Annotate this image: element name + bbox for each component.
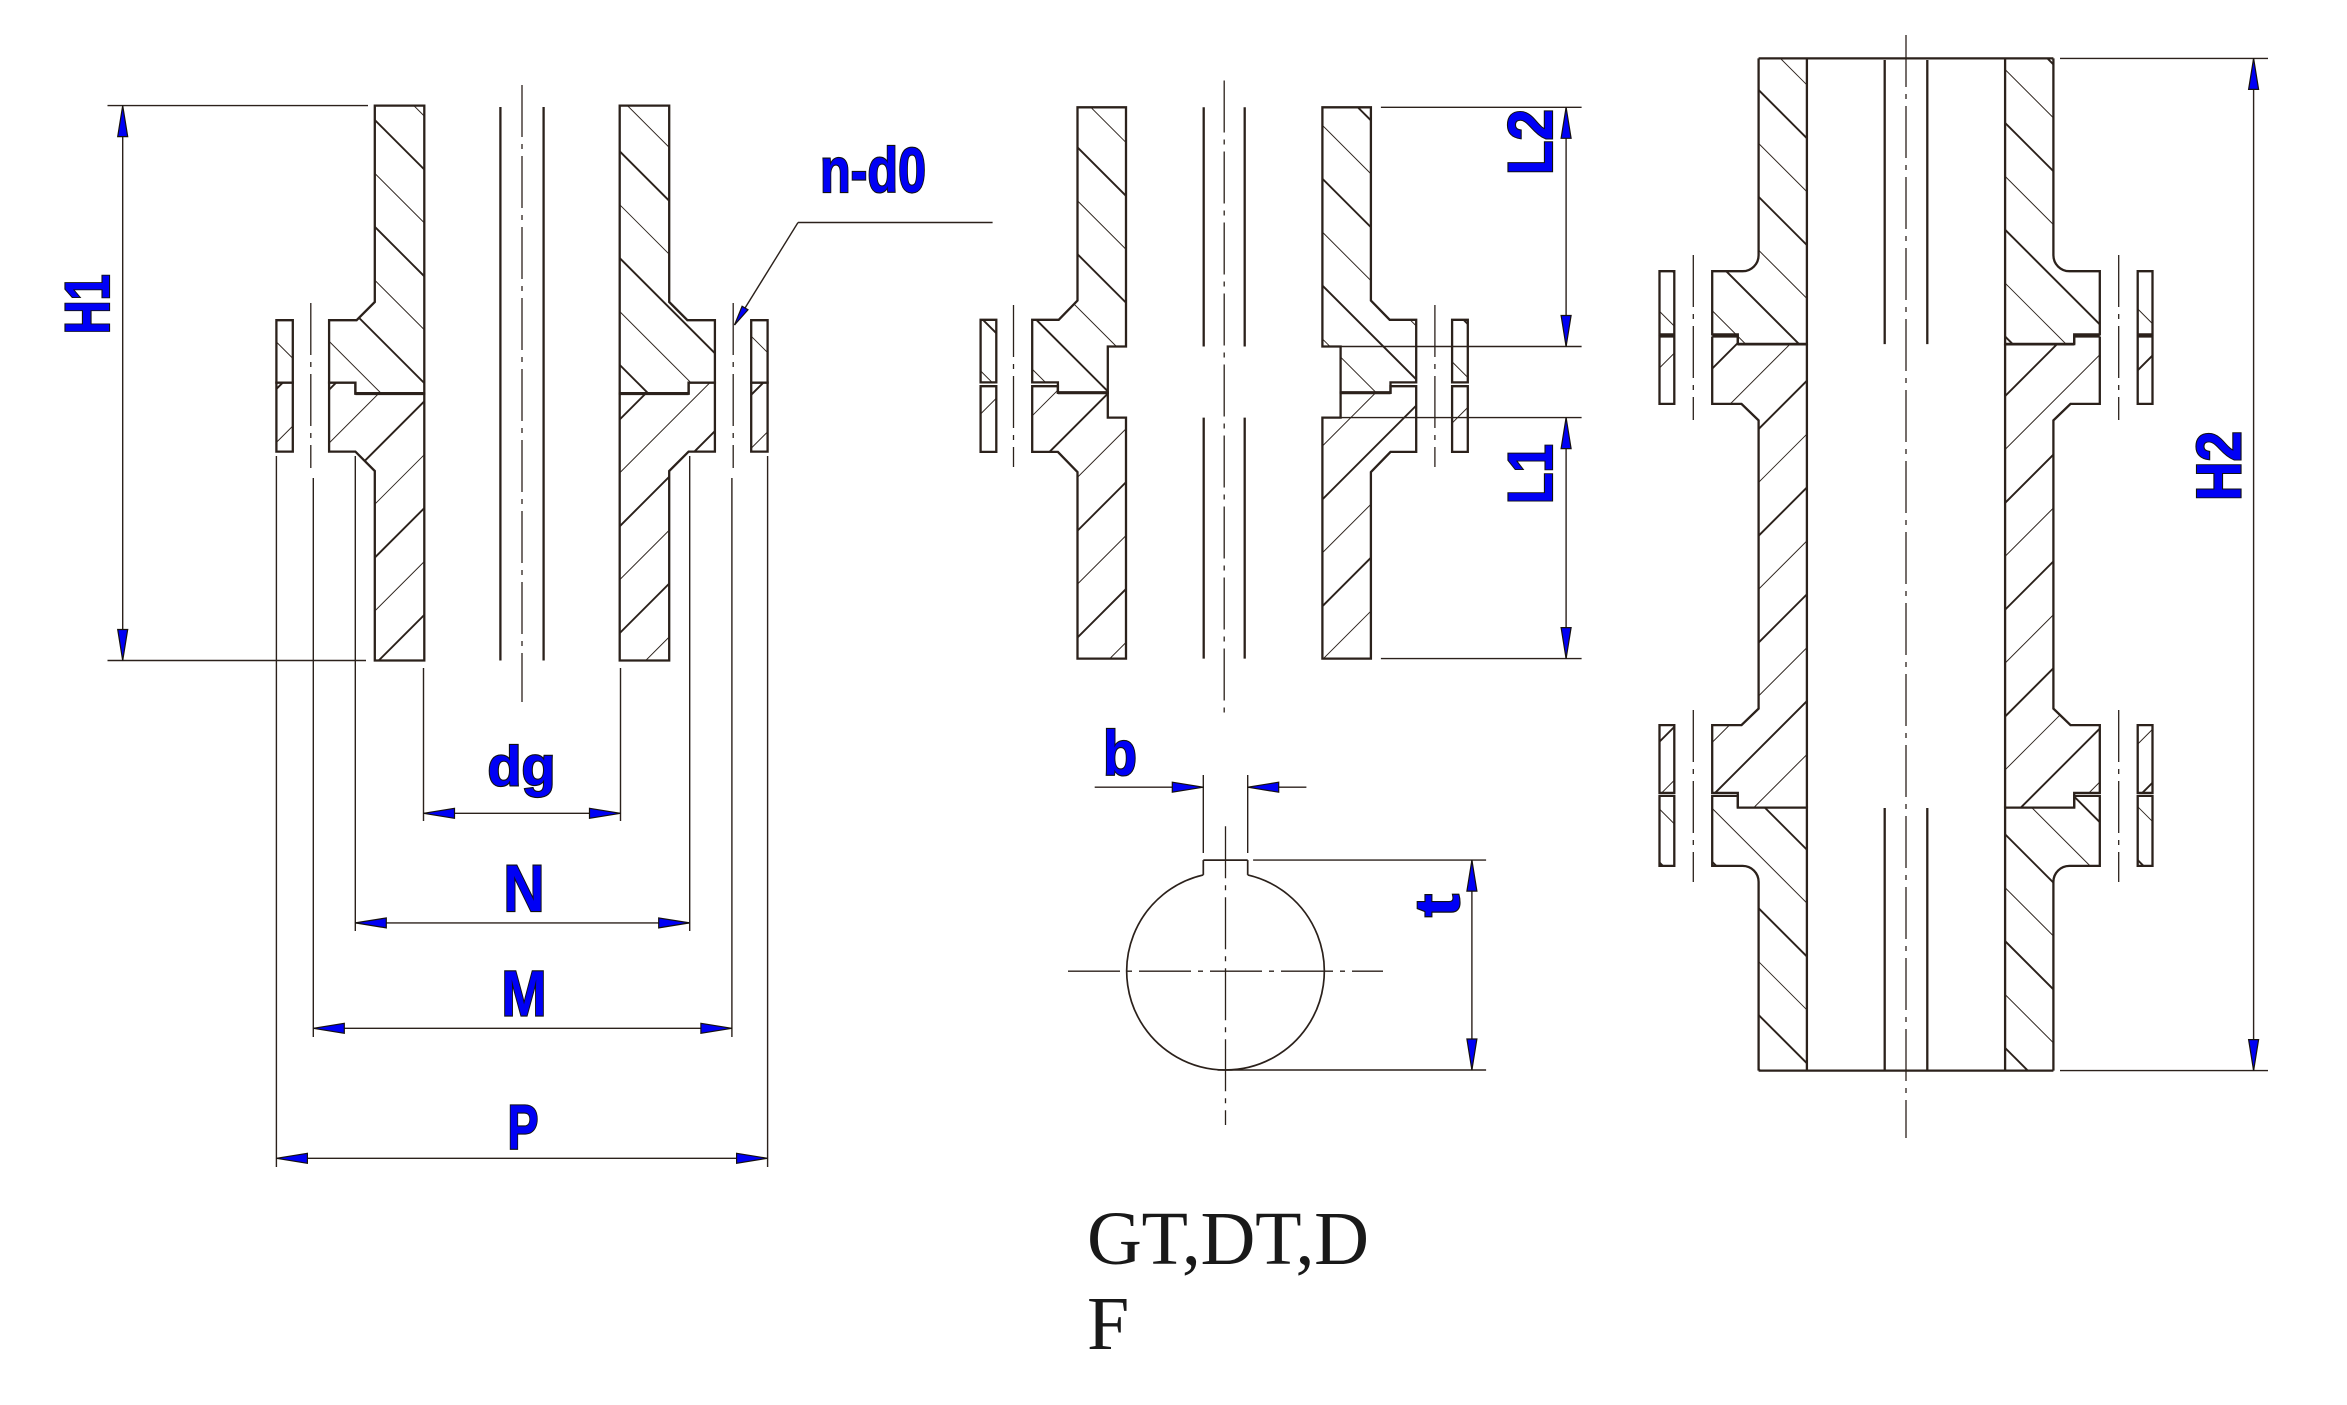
middle view thick contact line left: [1058, 391, 1108, 394]
dimension b line: [1095, 786, 1204, 788]
dimension L1 arrows: [1561, 418, 1571, 449]
right view bottom half-coupling outline (left half): [1712, 796, 1807, 1071]
left view lower flange outline (right half): [620, 383, 715, 661]
right view spacer outline (left half): [1712, 337, 1807, 808]
svg-text:n-d0: n-d0: [820, 136, 926, 206]
shaft section horizontal centerline: [1068, 970, 1383, 972]
dimension P line: [276, 1157, 767, 1159]
right view: main centerline (axis): [1905, 35, 1907, 1138]
left view outer rim at bolt hole, right upper: [751, 320, 767, 382]
dimension L1 line: [1565, 418, 1567, 659]
right view bottom face: [1759, 1069, 2054, 1071]
dimension b arrows: [1172, 782, 1203, 792]
dimension H2 arrows: [2249, 58, 2259, 89]
middle view lower flange outline (right half): [1322, 386, 1416, 658]
dimension t extension lines: [1253, 859, 1486, 861]
left view: bolt hole centerline left: [310, 303, 312, 468]
svg-text:b: b: [1103, 719, 1137, 789]
dimension N line: [355, 922, 689, 924]
dimension M extension lines: [312, 478, 314, 1037]
dimension L1 extension top: [1341, 417, 1582, 419]
dimension H2 line: [2253, 58, 2255, 1070]
svg-text:GT,DT,D: GT,DT,D: [1087, 1197, 1369, 1281]
left view upper flange outline (right half): [620, 106, 715, 394]
right view bottom half-coupling outline (right half): [2005, 796, 2100, 1071]
dimension L2 line: [1565, 107, 1567, 346]
left view upper flange outline (left half): [329, 106, 424, 394]
svg-text:P: P: [508, 1093, 539, 1163]
right view top face: [1759, 57, 2054, 59]
middle view upper flange outline (left half): [1032, 107, 1126, 392]
middle view: main centerline (axis): [1223, 81, 1225, 714]
right view pilot bore lines bottom: [1884, 808, 1886, 1071]
svg-text:F: F: [1087, 1282, 1129, 1366]
left view thick joint contact line right: [620, 392, 689, 395]
dimension H1 bottom extension line: [108, 660, 367, 662]
middle view pilot bore lines upper: [1203, 107, 1205, 346]
dimension t line: [1471, 860, 1473, 1070]
dimension H1 arrows: [118, 106, 128, 137]
right view pilot bore lines top: [1884, 60, 1886, 344]
right view rims lower joint left: [1660, 725, 1675, 793]
dimension dg line: [424, 812, 621, 814]
dimension H1 top extension line: [108, 105, 369, 107]
dimension P arrows: [276, 1153, 307, 1163]
svg-text:t: t: [1403, 894, 1473, 917]
dimension dg arrows: [424, 808, 455, 818]
right view rims upper joint left: [1660, 271, 1675, 334]
right view: bolt centerlines lower joint: [1692, 710, 1694, 882]
dimension H2 extension bottom: [2060, 1070, 2268, 1072]
svg-text:L2: L2: [1496, 109, 1566, 175]
right view thick contact upper joint: [1738, 343, 1807, 346]
dimension L1 extension bottom: [1381, 658, 1582, 660]
dimension dg extension lines: [423, 668, 425, 821]
middle view thick contact line right: [1341, 391, 1391, 394]
svg-text:L1: L1: [1496, 444, 1566, 504]
right view spacer outline (right half): [2005, 337, 2100, 808]
left view pilot bore line left: [499, 107, 501, 661]
svg-text:N: N: [504, 851, 545, 925]
right view rims upper joint right: [2138, 271, 2153, 334]
svg-text:H2: H2: [2185, 431, 2255, 501]
shaft section circle with keyway: [1127, 875, 1325, 1070]
dimension M arrows: [313, 1023, 344, 1033]
middle view rim right upper: [1452, 320, 1468, 383]
svg-text:H1: H1: [53, 274, 123, 334]
keyway slot: [1202, 860, 1204, 875]
middle view: bolt centerline right: [1434, 305, 1436, 467]
middle view pilot bore lines lower: [1203, 418, 1205, 659]
left view: bolt hole centerline right (n-d0 hole): [732, 303, 734, 468]
dimension L2 extension top: [1381, 106, 1582, 108]
dimension H2 extension top: [2060, 57, 2268, 59]
right view top half-coupling outline (right half): [2005, 58, 2100, 344]
dimension H1 line: [122, 106, 124, 661]
dimension t arrows: [1467, 860, 1477, 891]
svg-text:M: M: [502, 958, 547, 1030]
dimension L2 extension bottom: [1341, 346, 1582, 348]
middle view: bolt centerline left: [1013, 305, 1015, 467]
left view outer rim at bolt hole, left upper: [276, 320, 292, 382]
svg-text:dg: dg: [488, 735, 556, 798]
left view thick joint contact line left: [355, 392, 424, 395]
right view: bolt centerlines upper joint: [1692, 255, 1694, 420]
left view lower flange outline (left half): [329, 383, 424, 661]
dimension L2 arrows: [1561, 107, 1571, 138]
leader line n-d0: [735, 223, 799, 326]
leader arrow n-d0: [735, 306, 749, 325]
dimension M line: [313, 1027, 732, 1029]
middle view rim left upper: [981, 320, 997, 383]
right view rims lower joint right: [2138, 725, 2153, 793]
dimension N extension lines: [354, 456, 356, 931]
dimension N arrows: [355, 918, 386, 928]
middle view rim right lower: [1452, 386, 1468, 452]
left view pilot bore line right: [542, 107, 544, 661]
left view: main centerline (axis): [521, 85, 523, 702]
middle view rim left lower: [981, 386, 997, 452]
middle view lower flange outline (left half): [1032, 386, 1126, 658]
right view recess floor lower joint: [1738, 807, 1807, 809]
shaft section vertical centerline: [1225, 826, 1227, 1125]
dimension P extension lines: [275, 456, 277, 1167]
left view outer rim at bolt hole, right lower: [751, 383, 767, 452]
left view outer rim at bolt hole, left lower: [276, 383, 292, 452]
middle view upper flange outline (right half): [1322, 107, 1416, 392]
dimension b extension lines: [1202, 775, 1204, 853]
right view top half-coupling outline (left half): [1712, 58, 1807, 344]
